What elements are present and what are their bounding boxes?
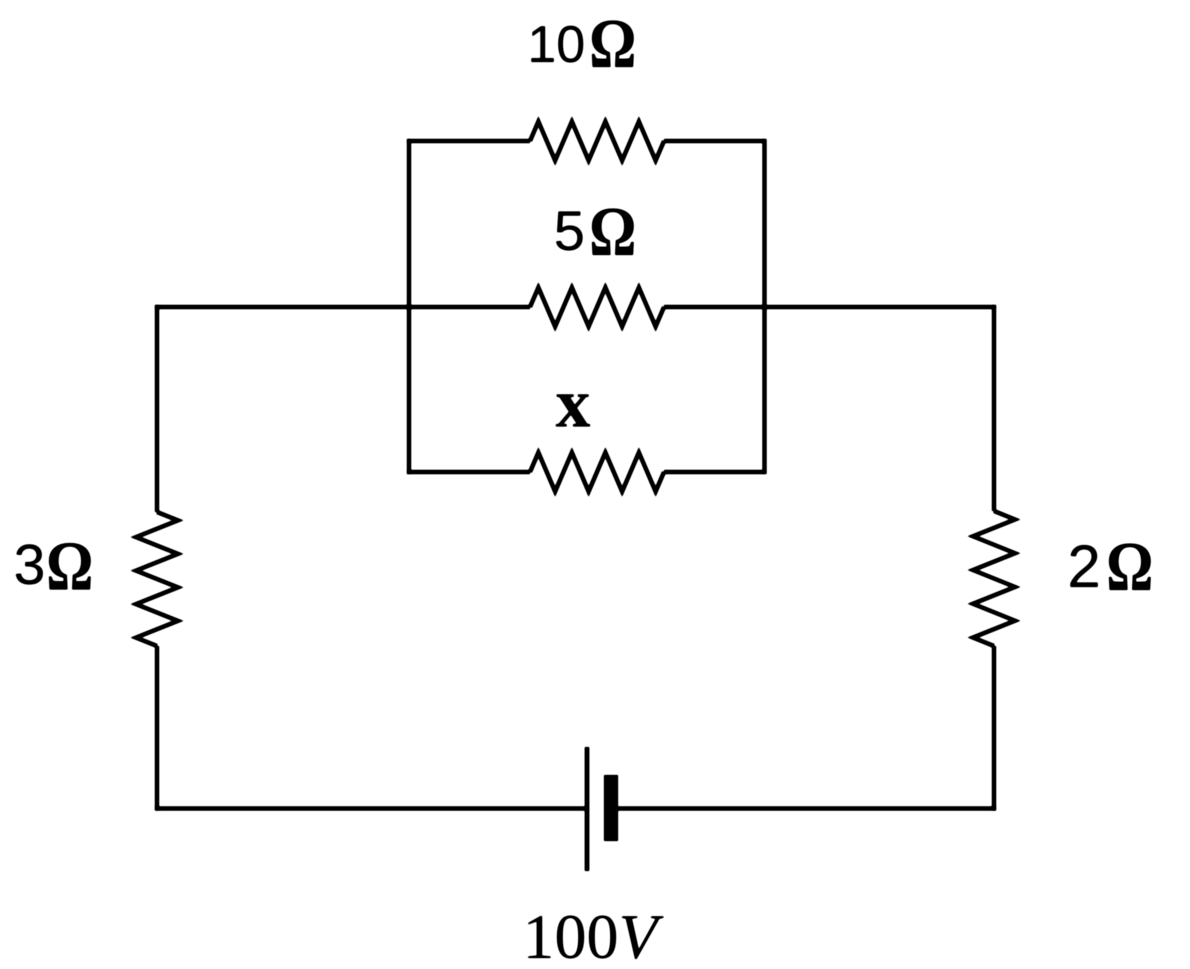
svg-text:100V: 100V bbox=[523, 901, 665, 964]
resistor 5ohm (middle) bbox=[530, 288, 664, 327]
svg-text:Ω: Ω bbox=[589, 4, 636, 82]
battery 100V long plate bbox=[585, 747, 590, 871]
svg-text:5: 5 bbox=[554, 199, 585, 262]
wire box bottom-right segment bbox=[664, 470, 765, 474]
svg-text:2: 2 bbox=[1067, 533, 1100, 600]
label ohm sign of 3ohm bbox=[46, 527, 93, 605]
resistor 2ohm (right) bbox=[973, 511, 1015, 646]
wire middle-right (5ohm to node B) bbox=[664, 305, 996, 309]
label ohm sign of 5ohm bbox=[589, 192, 636, 270]
wire box left vertical bbox=[407, 139, 411, 474]
label ohm sign of 2ohm bbox=[1106, 527, 1153, 605]
wire bottom-right (from battery) bbox=[611, 806, 996, 810]
wire right branch upper bbox=[992, 305, 996, 511]
wire box top-left segment bbox=[407, 139, 530, 143]
wire right branch lower bbox=[992, 646, 996, 811]
resistor 10ohm (top) bbox=[530, 122, 664, 161]
svg-text:x: x bbox=[556, 366, 591, 443]
wire box top-right segment bbox=[664, 139, 765, 143]
wire left branch upper bbox=[155, 305, 159, 512]
resistor 3ohm (left) bbox=[136, 512, 178, 646]
battery 100V short thick plate bbox=[604, 775, 618, 841]
wire middle-left (node A to 5ohm) bbox=[155, 305, 530, 309]
svg-text:3: 3 bbox=[14, 533, 46, 597]
label ohm sign of 10ohm bbox=[589, 4, 636, 82]
wire bottom-left (to battery) bbox=[155, 806, 587, 810]
wire box right vertical bbox=[762, 139, 766, 474]
wire box bottom-left segment bbox=[407, 470, 530, 474]
svg-text:Ω: Ω bbox=[46, 527, 93, 605]
wire left branch lower bbox=[155, 646, 159, 811]
svg-text:10: 10 bbox=[527, 16, 585, 74]
resistor x (bottom of box) bbox=[530, 453, 664, 492]
svg-text:Ω: Ω bbox=[1106, 527, 1153, 605]
svg-text:Ω: Ω bbox=[589, 192, 636, 270]
